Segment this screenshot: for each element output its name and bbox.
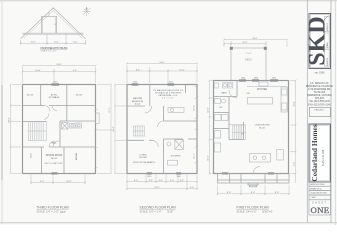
svg-text:KITCHEN: KITCHEN [257,89,267,91]
svg-text:est. 1996: est. 1996 [315,72,326,75]
svg-text:3'-4": 3'-4" [149,180,153,182]
svg-text:SCALE: 1/4"=1'-0": SCALE: 1/4"=1'-0" [237,210,257,213]
svg-text:4'-0": 4'-0" [170,180,174,182]
svg-text:17'-2": 17'-2" [109,107,111,113]
svg-text:FAX (613) 555-0140: FAX (613) 555-0140 [308,103,331,106]
svg-text:12'x10': 12'x10' [245,53,252,55]
svg-text:DRWN S.K.D.: DRWN S.K.D. [310,188,322,190]
svg-text:SHEET: SHEET [312,202,328,204]
svg-text:8'-0": 8'-0" [31,41,35,43]
svg-text:PROJECT: PROJECT [314,109,325,111]
svg-text:ONE: ONE [311,205,330,215]
svg-text:14'-6": 14'-6" [35,70,41,72]
svg-text:HALL: HALL [51,142,57,145]
svg-text:9'x10': 9'x10' [31,152,33,158]
svg-text:PEMBROKE, ONTARIO: PEMBROKE, ONTARIO [307,94,332,97]
svg-text:2840: 2840 [241,78,245,80]
svg-text:~ WOOD STOVE HEARTH ~: ~ WOOD STOVE HEARTH ~ [132,161,157,164]
svg-text:CHKD: CHKD [311,197,317,199]
svg-text:3050: 3050 [53,82,57,84]
svg-text:K8A 6X5: K8A 6X5 [315,97,325,100]
svg-text:12'-0": 12'-0" [207,107,209,113]
svg-text:SCALE: 1/4" = 1'-0": SCALE: 1/4" = 1'-0" [140,210,162,213]
svg-text:9'-0": 9'-0" [40,181,44,183]
svg-text:CATHEDRAL CLG.: CATHEDRAL CLG. [158,94,178,97]
svg-text:DECK: DECK [245,59,252,62]
svg-text:8'-0": 8'-0" [275,192,279,194]
svg-text:15'x20': 15'x20' [259,128,266,130]
svg-text:BONUS ROOM: BONUS ROOM [46,155,62,157]
svg-text:STRUCT: STRUCT [327,22,329,31]
svg-text:S.K. DESIGN LTD.: S.K. DESIGN LTD. [310,83,330,85]
svg-text:MASTER: MASTER [133,97,143,100]
svg-text:28'-0": 28'-0" [9,117,11,123]
svg-text:3050: 3050 [272,78,276,80]
svg-text:11'-4": 11'-4" [194,153,196,158]
svg-text:2840: 2840 [147,176,151,178]
svg-text:3'-2": 3'-2" [180,180,184,182]
svg-text:PROPOSED ATTIC TRUSS: PROPOSED ATTIC TRUSS [41,46,68,50]
svg-text:24'-0": 24'-0" [56,64,62,66]
svg-text:BATH: BATH [221,92,227,95]
svg-text:DESIGN: DESIGN [327,57,329,65]
svg-text:LIVING: LIVING [139,155,146,157]
svg-text:KADE: KADE [326,41,329,47]
svg-text:SCALE AS NOTED: SCALE AS NOTED [311,192,328,195]
svg-text:STORAGE: STORAGE [49,96,60,99]
svg-text:3050: 3050 [133,82,137,84]
svg-text:15'-0": 15'-0" [66,181,72,183]
svg-text:BEDRM: BEDRM [76,153,78,161]
svg-text:11'-6": 11'-6" [179,69,184,71]
svg-text:11'-0": 11'-0" [207,155,209,160]
svg-text:24'-0": 24'-0" [159,62,165,64]
svg-text:2840: 2840 [177,176,181,178]
svg-text:DATE NOV 2006: DATE NOV 2006 [310,183,324,186]
svg-text:Cedarland Homes: Cedarland Homes [310,124,319,181]
svg-text:8'-0": 8'-0" [227,192,231,194]
svg-text:W/ WALK-IN & ENSUITE: W/ WALK-IN & ENSUITE [155,91,182,94]
svg-text:ROOM: ROOM [140,157,147,159]
svg-text:KITCHEN: KITCHEN [171,156,181,158]
svg-text:SCALE: 1/4" = 1'-0": SCALE: 1/4" = 1'-0" [37,210,59,213]
svg-text:9'-0": 9'-0" [294,162,296,166]
svg-text:ATTIC: ATTIC [51,94,58,97]
svg-text:12'-0": 12'-0" [194,105,196,111]
svg-text:15'-0": 15'-0" [294,101,296,107]
svg-text:RESIDENTIAL PLANNING: RESIDENTIAL PLANNING [306,85,334,88]
svg-text:10'x12': 10'x12' [27,95,34,97]
svg-text:21'-0": 21'-0" [154,187,160,189]
svg-text:3050: 3050 [169,82,173,84]
svg-text:3/16"=1': 3/16"=1' [262,210,273,214]
svg-text:THIRD FLOOR PLAN: THIRD FLOOR PLAN [37,206,70,210]
svg-text:3'-4": 3'-4" [159,180,163,182]
svg-text:8'-0": 8'-0" [73,41,77,43]
svg-text:XXX CLOSET XXX: XXX CLOSET XXX [45,163,64,165]
svg-text:PLAN 4-21-309: PLAN 4-21-309 [322,149,325,166]
svg-text:9'-6": 9'-6" [73,70,77,72]
svg-text:10'x12': 10'x12' [76,95,83,97]
svg-text:11'x12': 11'x12' [134,103,141,105]
svg-text:8'-6": 8'-6" [136,69,140,71]
svg-text:SUITE 200: SUITE 200 [314,92,326,94]
svg-text:1170 RIVERSIDE DR.: 1170 RIVERSIDE DR. [308,89,331,91]
svg-text:LIVING ROOM: LIVING ROOM [255,125,270,127]
svg-text:3/16": 3/16" [167,210,173,214]
svg-text:WC: WC [219,107,223,109]
svg-text:24'-0": 24'-0" [252,38,258,40]
svg-text:3/16": 3/16" [60,210,66,214]
svg-text:12'-0": 12'-0" [242,42,248,44]
svg-text:6'-0": 6'-0" [134,180,138,182]
svg-text:3'-0": 3'-0" [190,187,194,189]
svg-text:16'x13': 16'x13' [51,158,58,160]
svg-text:12'x14': 12'x14' [162,98,175,100]
svg-text:6'-0": 6'-0" [54,41,58,43]
svg-text:8'-0": 8'-0" [251,192,255,194]
svg-text:28'-0": 28'-0" [113,126,115,132]
svg-text:SCALE: 1/2"=1'-0": SCALE: 1/2"=1'-0" [41,50,57,53]
svg-text:2840: 2840 [254,78,258,80]
svg-text:XX MASTER BEDROOM XX: XX MASTER BEDROOM XX [153,89,184,92]
